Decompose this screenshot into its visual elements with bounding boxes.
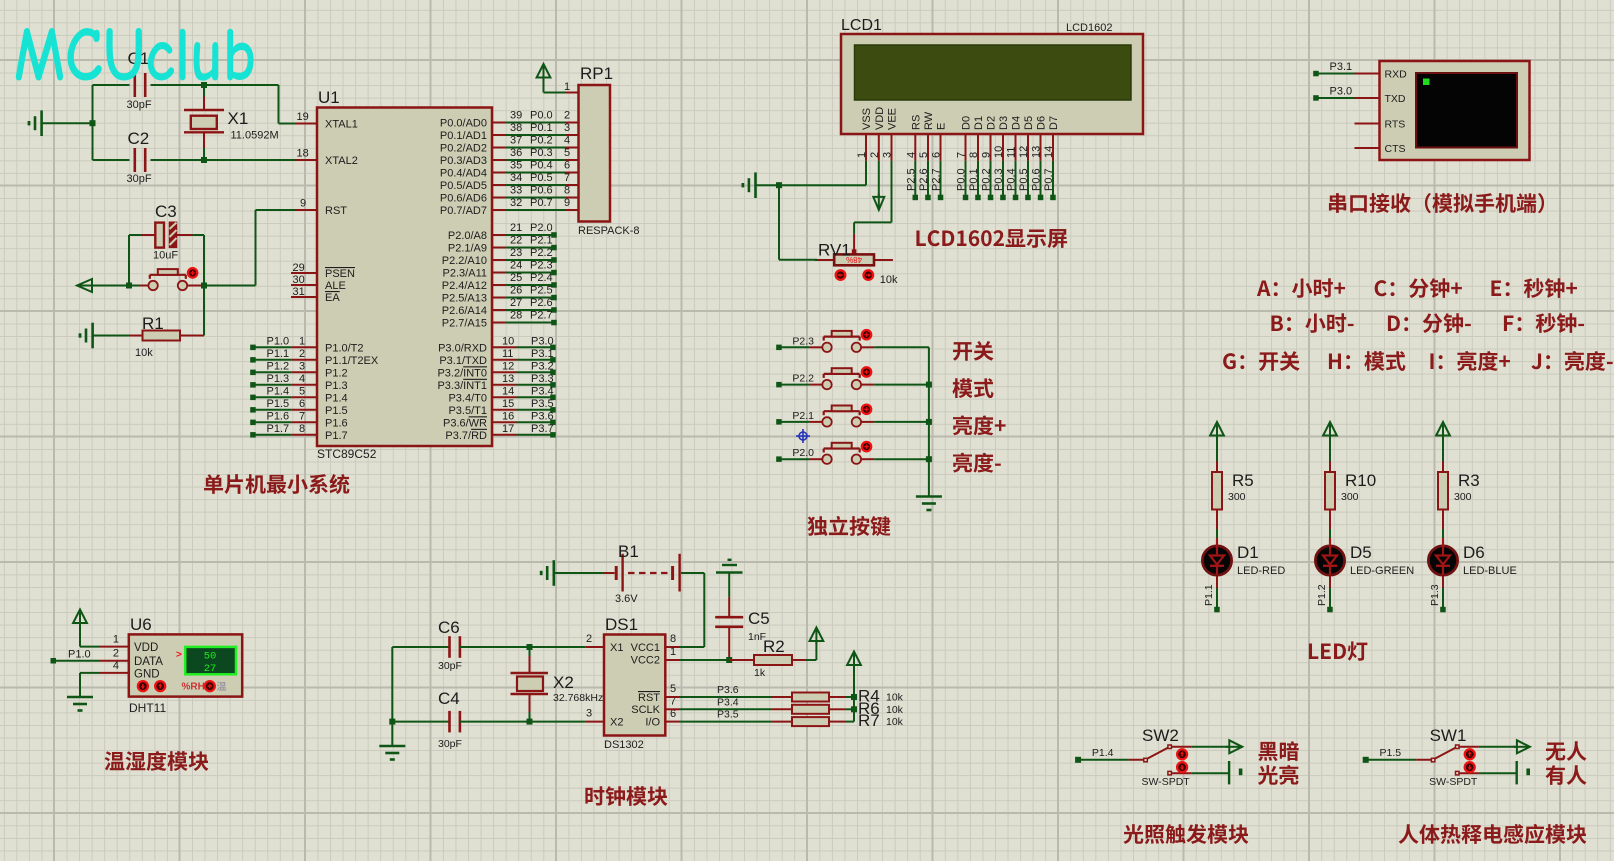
svg-text:27: 27 [204, 663, 217, 675]
svg-text:>: > [176, 650, 182, 661]
svg-text:P0.5/AD5: P0.5/AD5 [440, 180, 487, 192]
svg-text:P2.3: P2.3 [530, 260, 553, 272]
svg-text:6: 6 [564, 160, 570, 172]
svg-text:10k: 10k [886, 704, 904, 716]
svg-text:RS: RS [910, 115, 922, 130]
svg-text:P3.6: P3.6 [531, 410, 554, 422]
svg-text:33: 33 [510, 185, 522, 197]
svg-text:1k: 1k [754, 667, 766, 679]
svg-text:36: 36 [510, 147, 522, 159]
svg-text:P2.2: P2.2 [530, 247, 553, 259]
svg-text:1: 1 [670, 646, 676, 658]
svg-text:P1.4: P1.4 [267, 385, 290, 397]
svg-text:13: 13 [502, 373, 514, 385]
svg-text:30pF: 30pF [438, 660, 462, 672]
svg-text:3: 3 [299, 360, 305, 372]
svg-text:P0.3: P0.3 [993, 168, 1005, 191]
svg-text:LED-RED: LED-RED [1237, 565, 1285, 577]
svg-text:P0.7: P0.7 [1043, 168, 1055, 191]
svg-text:D1: D1 [973, 116, 985, 130]
svg-text:P1.4: P1.4 [1092, 747, 1114, 759]
svg-text:32: 32 [510, 197, 522, 209]
svg-text:D2: D2 [986, 116, 998, 130]
svg-text:P3.1: P3.1 [531, 348, 554, 360]
svg-text:RP1: RP1 [580, 64, 613, 83]
svg-text:R3: R3 [1458, 471, 1480, 490]
svg-text:RXD: RXD [1385, 68, 1408, 80]
svg-text:P1.1: P1.1 [267, 348, 290, 360]
svg-text:8: 8 [968, 152, 980, 158]
svg-text:P1.2: P1.2 [1316, 584, 1328, 606]
svg-text:P1.3: P1.3 [325, 380, 348, 392]
svg-text:30: 30 [293, 274, 305, 286]
svg-text:22: 22 [510, 235, 522, 247]
svg-text:5: 5 [564, 147, 570, 159]
svg-text:P3.4: P3.4 [717, 696, 739, 708]
svg-text:30pF: 30pF [127, 173, 152, 185]
svg-text:34: 34 [510, 172, 522, 184]
svg-text:300: 300 [1341, 491, 1359, 503]
svg-text:P2.6/A14: P2.6/A14 [442, 305, 487, 317]
svg-text:11: 11 [502, 348, 513, 360]
svg-text:E: E [936, 123, 948, 130]
svg-text:P1.0: P1.0 [68, 649, 91, 661]
svg-text:P3.5: P3.5 [717, 709, 739, 721]
svg-text:P3.5: P3.5 [531, 398, 554, 410]
svg-text:P3.4/T0: P3.4/T0 [448, 392, 487, 404]
svg-text:4: 4 [564, 135, 570, 147]
svg-text:STC89C52: STC89C52 [317, 447, 377, 461]
svg-text:38: 38 [510, 122, 522, 134]
svg-text:DS1: DS1 [605, 615, 638, 634]
svg-text:P0.4: P0.4 [530, 160, 553, 172]
svg-text:P0.2: P0.2 [530, 135, 553, 147]
svg-text:P0.3/AD3: P0.3/AD3 [440, 155, 487, 167]
svg-text:12: 12 [1018, 146, 1030, 158]
svg-text:12: 12 [502, 360, 514, 372]
svg-text:13: 13 [1031, 146, 1043, 158]
svg-text:9: 9 [564, 197, 570, 209]
svg-text:P1.2: P1.2 [267, 360, 290, 372]
svg-text:31: 31 [293, 286, 305, 298]
svg-text:X1: X1 [610, 642, 623, 654]
svg-text:P2.2/A10: P2.2/A10 [442, 255, 487, 267]
svg-text:5: 5 [670, 683, 676, 695]
svg-text:VDD: VDD [874, 107, 886, 130]
svg-text:19: 19 [297, 111, 309, 123]
svg-text:D7: D7 [1048, 116, 1060, 130]
svg-text:P3.2/INT0: P3.2/INT0 [437, 367, 487, 379]
svg-text:P1.7: P1.7 [267, 423, 290, 435]
svg-text:X2: X2 [610, 717, 623, 729]
svg-text:P2.7/A15: P2.7/A15 [442, 318, 487, 330]
svg-text:D1: D1 [1237, 543, 1259, 562]
svg-text:10uF: 10uF [153, 250, 178, 262]
svg-text:P2.1: P2.1 [530, 235, 553, 247]
svg-text:RV1: RV1 [818, 241, 851, 260]
svg-text:XTAL2: XTAL2 [325, 155, 358, 167]
svg-text:P2.4/A12: P2.4/A12 [442, 280, 487, 292]
svg-text:3: 3 [882, 152, 894, 158]
svg-text:P0.6: P0.6 [1031, 168, 1043, 191]
svg-text:1: 1 [113, 634, 119, 646]
svg-text:PSEN: PSEN [325, 268, 355, 280]
svg-text:P3.7: P3.7 [531, 423, 554, 435]
svg-text:X1: X1 [228, 109, 249, 128]
svg-text:11: 11 [1006, 147, 1018, 158]
svg-text:SW-SPDT: SW-SPDT [1142, 776, 1191, 788]
svg-text:VDD: VDD [134, 642, 158, 654]
svg-text:P3.2: P3.2 [531, 360, 554, 372]
svg-text:D3: D3 [998, 116, 1010, 130]
svg-text:18: 18 [297, 148, 309, 160]
svg-text:ALE: ALE [325, 280, 346, 292]
svg-text:10: 10 [993, 146, 1005, 158]
svg-text:XTAL1: XTAL1 [325, 119, 358, 131]
svg-text:2: 2 [586, 633, 592, 645]
svg-text:P2.2: P2.2 [792, 373, 814, 385]
svg-text:2: 2 [113, 648, 119, 660]
svg-text:P0.1/AD1: P0.1/AD1 [440, 130, 487, 142]
svg-text:P0.5: P0.5 [530, 172, 553, 184]
svg-text:27: 27 [510, 297, 522, 309]
svg-text:P3.0/RXD: P3.0/RXD [438, 342, 487, 354]
svg-text:C3: C3 [155, 202, 177, 221]
svg-text:P0.6/AD6: P0.6/AD6 [440, 193, 487, 205]
svg-text:16: 16 [502, 410, 514, 422]
svg-text:P0.7: P0.7 [530, 197, 553, 209]
svg-text:P1.6: P1.6 [325, 417, 348, 429]
svg-text:10k: 10k [135, 347, 153, 359]
svg-text:50: 50 [204, 651, 217, 663]
svg-text:7: 7 [299, 410, 305, 422]
svg-text:28: 28 [510, 310, 522, 322]
svg-text:RST: RST [638, 692, 660, 704]
svg-text:P2.7: P2.7 [931, 168, 943, 191]
svg-text:300: 300 [1228, 491, 1246, 503]
svg-text:P1.1/T2EX: P1.1/T2EX [325, 355, 379, 367]
svg-text:P1.3: P1.3 [267, 373, 290, 385]
svg-text:LED-BLUE: LED-BLUE [1463, 565, 1517, 577]
svg-text:R10: R10 [1345, 471, 1376, 490]
svg-text:10k: 10k [886, 716, 904, 728]
svg-text:P2.6: P2.6 [530, 297, 553, 309]
svg-text:P2.3: P2.3 [792, 335, 814, 347]
svg-text:1: 1 [299, 335, 305, 347]
svg-text:P2.0/A8: P2.0/A8 [448, 230, 487, 242]
svg-text:DATA: DATA [134, 656, 163, 668]
svg-text:CTS: CTS [1385, 143, 1406, 155]
svg-text:P1.7: P1.7 [325, 430, 348, 442]
svg-text:37: 37 [510, 135, 522, 147]
svg-text:P0.5: P0.5 [1018, 168, 1030, 191]
svg-text:C5: C5 [748, 609, 770, 628]
svg-text:2: 2 [299, 348, 305, 360]
svg-text:P2.5/A13: P2.5/A13 [442, 293, 487, 305]
svg-text:P1.0/T2: P1.0/T2 [325, 342, 364, 354]
svg-text:10k: 10k [886, 692, 904, 704]
svg-text:10: 10 [502, 335, 514, 347]
svg-text:C4: C4 [438, 689, 460, 708]
svg-text:P0.6: P0.6 [530, 185, 553, 197]
svg-text:VSS: VSS [861, 108, 873, 130]
svg-text:P1.3: P1.3 [1429, 584, 1441, 606]
svg-text:D6: D6 [1036, 116, 1048, 130]
svg-text:P2.6: P2.6 [918, 168, 930, 191]
svg-text:C2: C2 [128, 129, 150, 148]
svg-text:3: 3 [586, 708, 592, 720]
svg-text:SW2: SW2 [1142, 726, 1179, 745]
svg-text:D4: D4 [1011, 116, 1023, 130]
svg-text:P3.3: P3.3 [531, 373, 554, 385]
svg-text:I/O: I/O [645, 717, 660, 729]
svg-text:30pF: 30pF [438, 738, 462, 750]
svg-text:17: 17 [502, 423, 514, 435]
svg-text:26: 26 [510, 285, 522, 297]
svg-text:P1.5: P1.5 [267, 398, 290, 410]
svg-text:D5: D5 [1023, 116, 1035, 130]
svg-text:P2.3/A11: P2.3/A11 [443, 268, 487, 280]
svg-text:4: 4 [905, 152, 917, 158]
svg-text:P1.5: P1.5 [325, 405, 348, 417]
svg-text:RESPACK-8: RESPACK-8 [578, 225, 640, 237]
svg-text:P3.0: P3.0 [1330, 86, 1353, 98]
svg-text:VEE: VEE [887, 108, 899, 130]
svg-text:D0: D0 [961, 116, 973, 130]
svg-text:14: 14 [502, 385, 514, 397]
svg-text:6: 6 [299, 398, 305, 410]
svg-text:P2.4: P2.4 [530, 272, 553, 284]
svg-text:VCC1: VCC1 [631, 642, 660, 654]
svg-text:P2.1: P2.1 [792, 410, 814, 422]
svg-text:P3.3/INT1: P3.3/INT1 [437, 380, 487, 392]
svg-text:P1.2: P1.2 [325, 367, 348, 379]
svg-text:P0.4/AD4: P0.4/AD4 [440, 168, 487, 180]
svg-text:7: 7 [956, 152, 968, 158]
svg-text:D5: D5 [1350, 543, 1372, 562]
svg-text:P0.1: P0.1 [530, 122, 553, 134]
svg-text:%RH: %RH [182, 681, 205, 692]
svg-text:P3.4: P3.4 [531, 385, 554, 397]
svg-text:TXD: TXD [1385, 93, 1406, 105]
svg-text:5: 5 [918, 152, 930, 158]
svg-text:RTS: RTS [1385, 118, 1406, 130]
svg-text:GND: GND [134, 669, 160, 681]
svg-text:P1.1: P1.1 [1203, 584, 1215, 606]
svg-text:R2: R2 [763, 637, 785, 656]
svg-text:P3.0: P3.0 [531, 335, 554, 347]
svg-text:1: 1 [564, 81, 570, 93]
svg-text:39: 39 [510, 110, 522, 122]
svg-text:9: 9 [981, 152, 993, 158]
svg-text:R5: R5 [1232, 471, 1254, 490]
svg-text:P0.7/AD7: P0.7/AD7 [440, 205, 487, 217]
svg-text:5: 5 [299, 385, 305, 397]
svg-text:4: 4 [113, 660, 119, 672]
svg-text:21: 21 [510, 222, 522, 234]
svg-text:P2.5: P2.5 [905, 168, 917, 191]
svg-text:P0.2/AD2: P0.2/AD2 [440, 143, 487, 155]
svg-text:P0.0: P0.0 [530, 110, 553, 122]
svg-text:35: 35 [510, 160, 522, 172]
svg-text:P2.0: P2.0 [530, 222, 553, 234]
svg-text:2: 2 [564, 110, 570, 122]
svg-text:P0.0: P0.0 [956, 168, 968, 191]
svg-text:P2.0: P2.0 [792, 447, 814, 459]
svg-text:15: 15 [502, 398, 514, 410]
svg-text:P2.7: P2.7 [530, 310, 553, 322]
svg-text:EA: EA [325, 292, 340, 304]
svg-text:P0.1: P0.1 [968, 168, 980, 191]
svg-text:3.6V: 3.6V [615, 593, 638, 605]
svg-text:VCC2: VCC2 [631, 655, 660, 667]
svg-text:P0.4: P0.4 [1006, 168, 1018, 191]
svg-text:X2: X2 [553, 673, 574, 692]
svg-text:P3.6/WR: P3.6/WR [443, 417, 487, 429]
svg-text:B1: B1 [618, 542, 639, 561]
svg-text:25: 25 [510, 272, 522, 284]
svg-text:LCD1602: LCD1602 [1066, 22, 1112, 34]
svg-text:P1.6: P1.6 [267, 410, 290, 422]
svg-text:P0.3: P0.3 [530, 147, 553, 159]
svg-text:7: 7 [564, 172, 570, 184]
svg-text:SW-SPDT: SW-SPDT [1429, 776, 1478, 788]
svg-text:300: 300 [1454, 491, 1472, 503]
svg-text:P1.0: P1.0 [267, 335, 290, 347]
svg-text:3: 3 [564, 122, 570, 134]
svg-text:1: 1 [856, 152, 868, 158]
svg-text:R7: R7 [858, 711, 880, 730]
svg-text:P3.6: P3.6 [717, 684, 739, 696]
svg-text:P2.5: P2.5 [530, 285, 553, 297]
svg-text:P3.1/TXD: P3.1/TXD [439, 355, 487, 367]
svg-text:C6: C6 [438, 618, 460, 637]
svg-text:8: 8 [670, 633, 676, 645]
svg-text:U1: U1 [318, 88, 340, 107]
svg-text:R1: R1 [142, 314, 164, 333]
svg-text:8: 8 [564, 185, 570, 197]
svg-text:11.0592M: 11.0592M [231, 130, 279, 142]
svg-text:24: 24 [510, 260, 522, 272]
svg-text:32.768kHz: 32.768kHz [553, 692, 603, 704]
svg-text:DHT11: DHT11 [129, 701, 166, 715]
svg-text:14: 14 [1043, 146, 1055, 158]
svg-text:RW: RW [923, 111, 935, 130]
svg-text:10k: 10k [880, 274, 898, 286]
svg-text:P3.7/RD: P3.7/RD [445, 430, 487, 442]
svg-text:P1.4: P1.4 [325, 392, 348, 404]
svg-text:2: 2 [869, 152, 881, 158]
svg-text:8: 8 [299, 423, 305, 435]
svg-text:4: 4 [299, 373, 305, 385]
svg-text:9: 9 [300, 198, 306, 210]
svg-text:6: 6 [931, 152, 943, 158]
svg-text:P0.2: P0.2 [981, 168, 993, 191]
svg-text:LCD1: LCD1 [841, 17, 882, 34]
svg-text:P3.5/T1: P3.5/T1 [448, 405, 487, 417]
svg-text:LED-GREEN: LED-GREEN [1350, 565, 1414, 577]
svg-text:30pF: 30pF [127, 99, 152, 111]
svg-text:D6: D6 [1463, 543, 1485, 562]
svg-text:DS1302: DS1302 [604, 739, 644, 751]
svg-text:U6: U6 [130, 615, 152, 634]
svg-text:RST: RST [325, 205, 347, 217]
svg-text:P2.1/A9: P2.1/A9 [448, 243, 487, 255]
svg-text:23: 23 [510, 247, 522, 259]
svg-text:SCLK: SCLK [631, 704, 660, 716]
svg-text:P3.1: P3.1 [1330, 61, 1353, 73]
svg-text:SW1: SW1 [1430, 726, 1467, 745]
svg-text:29: 29 [293, 262, 305, 274]
svg-text:P1.5: P1.5 [1380, 747, 1402, 759]
svg-text:P0.0/AD0: P0.0/AD0 [440, 118, 487, 130]
